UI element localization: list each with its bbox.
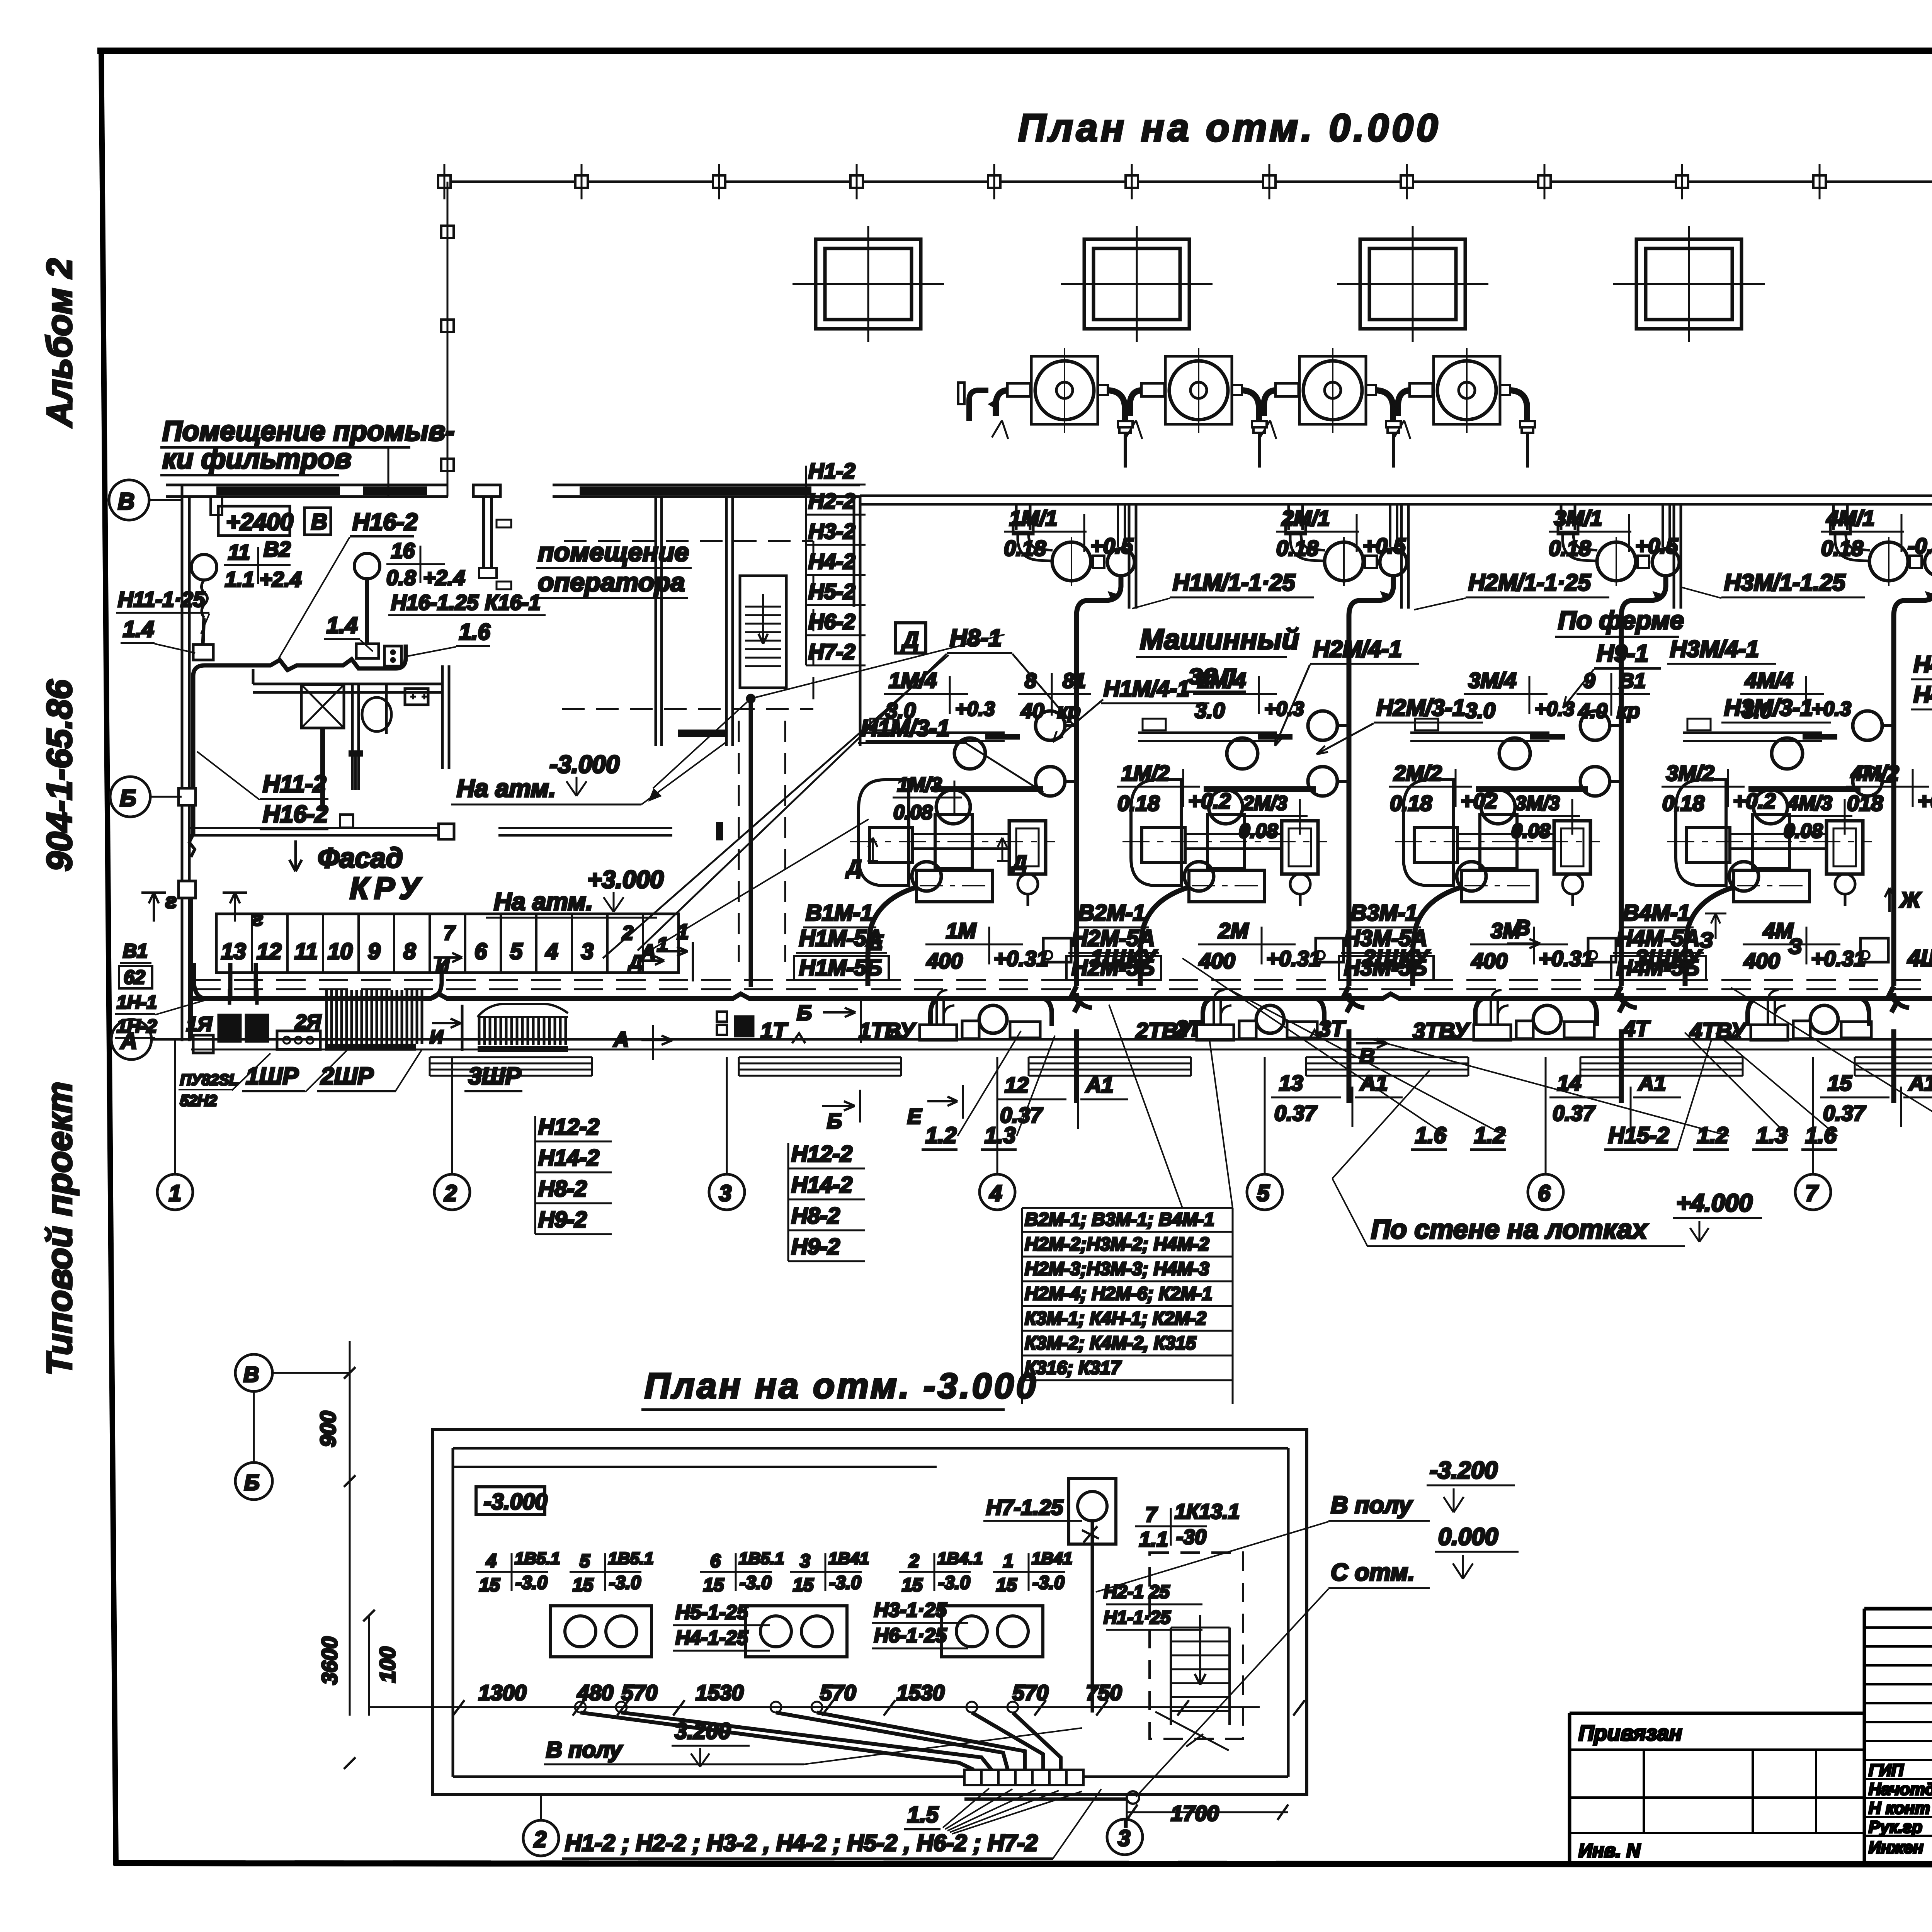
svg-text:помещение: помещение	[538, 537, 689, 567]
svg-text:Н конт: Н конт	[1869, 1799, 1930, 1818]
svg-text:2ТВУ: 2ТВУ	[1135, 1019, 1193, 1044]
svg-text:1В5.1: 1В5.1	[515, 1549, 560, 1568]
left colonnade column line down	[447, 182, 449, 497]
svg-text:12: 12	[1005, 1073, 1029, 1097]
svg-text:1.2: 1.2	[1697, 1123, 1728, 1148]
svg-text:4: 4	[545, 939, 558, 964]
svg-text:+0.31: +0.31	[1266, 946, 1321, 971]
svg-text:Н1-2 ; Н2-2 ; Н3-2 , Н4-2 ; Н5: Н1-2 ; Н2-2 ; Н3-2 , Н4-2 ; Н5-2 , Н6-2 …	[565, 1830, 1038, 1856]
svg-text:3М/3: 3М/3	[1515, 792, 1560, 815]
svg-text:Н1М/1-1·25: Н1М/1-1·25	[1173, 570, 1296, 595]
svg-text:Д: Д	[1011, 852, 1027, 874]
svg-text:Н4-2: Н4-2	[808, 549, 855, 573]
svg-text:Н8-2: Н8-2	[791, 1203, 840, 1228]
svg-text:+3.000: +3.000	[587, 866, 664, 893]
svg-text:81: 81	[1063, 669, 1086, 692]
break zigzags on А line	[889, 1030, 1741, 1039]
svg-text:Рук.гр: Рук.гр	[1869, 1818, 1922, 1837]
svg-text:2М/1: 2М/1	[1281, 506, 1330, 530]
svg-text:570: 570	[1012, 1680, 1048, 1705]
svg-text:Н9-1: Н9-1	[1597, 640, 1648, 667]
fraction 7|1К13.1	[1135, 1508, 1207, 1546]
border bottom	[114, 1863, 1932, 1865]
svg-text:Фасад: Фасад	[318, 843, 403, 874]
svg-text:К3М-2; К4М-2, К315: К3М-2; К4М-2, К315	[1025, 1333, 1197, 1354]
machine unit 1	[850, 504, 1134, 1103]
thin leaders from right datums into plan	[1096, 1522, 1328, 1592]
svg-text:3.0: 3.0	[1195, 698, 1225, 723]
fan feed pipe far left	[969, 390, 988, 421]
svg-text:В1: В1	[1619, 669, 1646, 692]
svg-text:кр: кр	[1057, 699, 1080, 723]
hanger circles below blocks	[575, 1702, 1018, 1713]
manifold row of ferrules	[964, 1770, 1083, 1785]
axis В circle	[109, 480, 149, 520]
svg-text:12: 12	[257, 939, 282, 964]
fan 1	[989, 348, 1133, 468]
svg-text:16: 16	[391, 539, 415, 563]
slanted cable runs to manifold	[580, 1713, 1061, 1770]
svg-text:3М/4: 3М/4	[1468, 668, 1517, 692]
svg-text:570: 570	[820, 1680, 856, 1705]
svg-text:Ж: Ж	[1899, 888, 1922, 912]
wall tick at left top	[211, 497, 222, 515]
bay wall stub 1	[1129, 504, 1136, 609]
skylight 2	[1061, 226, 1213, 342]
svg-text:1.3: 1.3	[985, 1123, 1016, 1148]
svg-text:Н3М/4-1: Н3М/4-1	[1670, 636, 1759, 662]
svg-text:Н11-1·25: Н11-1·25	[118, 587, 206, 611]
fraction 1М/4 3.0+0.3	[884, 668, 995, 723]
toilet stall	[351, 684, 354, 790]
4ТВУ	[1751, 990, 1871, 1040]
grid rows upper empty part	[1864, 1628, 1932, 1760]
svg-text:4М/3: 4М/3	[1787, 792, 1832, 815]
svg-text:8: 8	[403, 939, 416, 964]
svg-text:кр: кр	[1617, 699, 1640, 723]
svg-text:1.4: 1.4	[123, 617, 154, 642]
stack Н1-2..Н7-2	[806, 459, 866, 665]
svg-text:В1: В1	[123, 940, 148, 962]
svg-text:1.2: 1.2	[925, 1123, 957, 1148]
svg-text:904-1-65.86: 904-1-65.86	[40, 679, 79, 871]
svg-text:Н2М-4; Н2М-6; К2М-1: Н2М-4; Н2М-6; К2М-1	[1025, 1284, 1213, 1304]
svg-text:5: 5	[510, 939, 523, 964]
svg-text:На атм.: На атм.	[494, 888, 593, 915]
svg-text:400: 400	[1471, 949, 1507, 973]
svg-text:0.18: 0.18	[1549, 536, 1591, 560]
fraction 4М/1 0.18-0.5	[1821, 506, 1932, 560]
svg-text:Н6-1·25: Н6-1·25	[874, 1624, 947, 1647]
svg-text:Н3М/1-1.25: Н3М/1-1.25	[1724, 570, 1846, 595]
svg-text:0.18: 0.18	[1390, 791, 1432, 815]
fraction 2М/1 0.18+0.5	[1276, 506, 1406, 560]
svg-text:+0.5: +0.5	[1363, 534, 1406, 558]
svg-text:Н2М/3-1: Н2М/3-1	[1376, 695, 1465, 721]
dimension line with ticks	[440, 1706, 1260, 1708]
svg-text:В: В	[118, 488, 134, 514]
svg-text:+0.3: +0.3	[1535, 698, 1575, 720]
svg-text:0.18: 0.18	[1662, 791, 1705, 815]
axis circles 2 3 below lower plan	[523, 1820, 559, 1856]
svg-text:В1М-1: В1М-1	[806, 900, 873, 925]
svg-text:7: 7	[444, 922, 456, 944]
svg-text:3М/2: 3М/2	[1666, 761, 1714, 785]
svg-text:1.6: 1.6	[459, 619, 490, 645]
svg-text:0.37: 0.37	[1553, 1101, 1596, 1125]
svg-text:15: 15	[1828, 1071, 1852, 1095]
svg-text:+2400: +2400	[226, 509, 293, 536]
svg-text:Н12-2: Н12-2	[791, 1141, 852, 1167]
axis circles В Б left of lower plan	[235, 1354, 272, 1391]
svg-text:750: 750	[1086, 1680, 1122, 1705]
crossed duct box	[301, 685, 344, 728]
colonnade beam line	[442, 180, 1932, 183]
svg-text:-3.0: -3.0	[1032, 1573, 1065, 1593]
svg-text:В2: В2	[264, 537, 291, 561]
outer walls	[433, 1430, 1307, 1794]
svg-text:Н9-2: Н9-2	[538, 1207, 587, 1232]
г section marks	[141, 893, 166, 922]
svg-text:15: 15	[996, 1575, 1017, 1595]
svg-text:Инжен: Инжен	[1869, 1838, 1923, 1857]
svg-text:1К13.1: 1К13.1	[1175, 1500, 1240, 1523]
svg-text:4М/1: 4М/1	[1826, 506, 1875, 530]
svg-text:3.0: 3.0	[1465, 698, 1495, 723]
trench top line	[191, 1049, 1932, 1051]
svg-text:Н16-2: Н16-2	[352, 509, 418, 536]
svg-text:Альбом 2: Альбом 2	[40, 259, 79, 428]
svg-text:11: 11	[228, 540, 250, 564]
inner wall lines	[453, 1447, 1288, 1450]
svg-text:-3.000: -3.000	[549, 750, 619, 778]
svg-text:Машинный: Машинный	[1140, 623, 1299, 655]
svg-text:11: 11	[294, 939, 318, 964]
svg-text:14: 14	[1557, 1071, 1581, 1095]
svg-text:1Н-1: 1Н-1	[117, 992, 157, 1013]
svg-text:+0.31: +0.31	[1811, 946, 1866, 971]
svg-text:5: 5	[580, 1551, 590, 1571]
svg-text:Н3-1·25: Н3-1·25	[874, 1599, 947, 1621]
svg-text:Начотд: Начотд	[1869, 1780, 1932, 1799]
svg-text:2М/4: 2М/4	[1197, 668, 1246, 692]
svg-text:Н14-2: Н14-2	[791, 1172, 852, 1197]
1Т black box + label	[735, 1016, 753, 1036]
operator room left wall	[655, 497, 657, 746]
svg-text:018: 018	[1847, 791, 1883, 815]
svg-text:1.5: 1.5	[907, 1802, 939, 1827]
svg-text:6: 6	[474, 939, 487, 964]
svg-text:4ТВУ: 4ТВУ	[1689, 1019, 1747, 1044]
svg-text:Н5-1-25: Н5-1-25	[675, 1601, 748, 1624]
skylight 3	[1337, 226, 1488, 342]
svg-text:9: 9	[1583, 669, 1595, 692]
svg-text:3ТВУ: 3ТВУ	[1413, 1019, 1470, 1044]
skylight 1	[793, 226, 944, 342]
signature rows	[1864, 1779, 1932, 1836]
++ box	[405, 689, 428, 705]
bay wall stub 2	[1401, 504, 1408, 609]
corridor walls	[189, 827, 439, 829]
svg-text:-3.000: -3.000	[484, 1489, 547, 1514]
svg-text:1: 1	[169, 1181, 181, 1206]
boxed В	[304, 508, 331, 535]
bay wall stub 3	[1674, 504, 1681, 609]
svg-text:Н16-2: Н16-2	[263, 801, 328, 828]
svg-text:З: З	[1788, 934, 1802, 958]
svg-text:А1: А1	[1908, 1071, 1932, 1095]
svg-text:Н7-2: Н7-2	[808, 639, 855, 664]
svg-text:2М/3: 2М/3	[1242, 792, 1287, 815]
svg-text:3: 3	[581, 939, 594, 964]
Привязан annex	[1570, 1712, 1864, 1715]
svg-text:КРУ: КРУ	[350, 871, 425, 905]
svg-text:62: 62	[124, 966, 145, 988]
svg-text:Н5-2: Н5-2	[808, 579, 855, 604]
svg-text:4М/2: 4М/2	[1850, 761, 1899, 785]
svg-text:900: 900	[316, 1411, 340, 1447]
svg-text:-3.200: -3.200	[1430, 1457, 1498, 1484]
svg-text:0.18: 0.18	[1117, 791, 1160, 815]
annex inner right wall	[441, 665, 444, 769]
Д section marks mid-plan	[867, 838, 878, 861]
svg-text:Б: Б	[827, 1109, 842, 1133]
А axis line	[151, 1038, 1932, 1041]
svg-text:Е: Е	[869, 930, 884, 954]
svg-text:В: В	[311, 509, 327, 534]
svg-text:1: 1	[1003, 1551, 1014, 1571]
svg-text:6: 6	[710, 1551, 721, 1571]
svg-text:0.08: 0.08	[1511, 820, 1550, 842]
boxed +2400	[218, 506, 290, 536]
svg-text:13: 13	[1279, 1071, 1303, 1095]
svg-text:ПУ82SL: ПУ82SL	[180, 1071, 238, 1088]
svg-text:-30: -30	[1176, 1526, 1206, 1549]
svg-text:В полу: В полу	[1331, 1492, 1413, 1519]
svg-text:Б: Б	[120, 785, 136, 811]
svg-text:0.37: 0.37	[1823, 1101, 1866, 1125]
fraction 1М/3 0.08	[893, 774, 962, 824]
svg-text:0.000: 0.000	[1438, 1524, 1498, 1550]
axis Б circle	[110, 777, 150, 817]
svg-text:3600: 3600	[317, 1636, 342, 1685]
svg-text:ГИП: ГИП	[1869, 1761, 1904, 1780]
svg-text:1.1: 1.1	[225, 567, 254, 591]
main thick cable line (Б run)	[191, 994, 1932, 998]
svg-text:+02: +02	[1461, 789, 1497, 813]
svg-text:+2.4: +2.4	[260, 567, 302, 591]
svg-text:г: г	[165, 889, 177, 913]
machine unit 2	[1122, 504, 1407, 1103]
svg-text:3.200: 3.200	[675, 1719, 731, 1744]
svg-text:ки фильтров: ки фильтров	[162, 444, 351, 474]
svg-text:0.08: 0.08	[893, 801, 932, 824]
dashed tray pair below КРУ	[191, 979, 1932, 981]
svg-text:В2М-1: В2М-1	[1078, 900, 1145, 925]
svg-text:г: г	[252, 906, 263, 930]
svg-text:Н8-1: Н8-1	[950, 625, 1002, 651]
svg-text:+0.31: +0.31	[994, 946, 1049, 971]
Д boxed + Н8-1	[896, 623, 926, 653]
svg-text:А: А	[120, 1028, 137, 1054]
wall stub + black bar	[725, 497, 728, 746]
machine unit 4	[1667, 504, 1932, 1103]
svg-text:З: З	[1699, 928, 1713, 952]
outer top line of title block	[1864, 1607, 1932, 1611]
svg-text:15: 15	[703, 1575, 724, 1595]
svg-text:0.08: 0.08	[1239, 820, 1278, 842]
svg-text:3Т: 3Т	[1318, 1016, 1346, 1041]
svg-text:1М/3: 1М/3	[897, 774, 942, 796]
svg-text:2ШР: 2ШР	[320, 1063, 374, 1090]
svg-text:4ЩКУ: 4ЩКУ	[1907, 945, 1932, 971]
3ТВУ	[1474, 990, 1594, 1040]
machine hall left wall stub	[853, 496, 855, 607]
svg-text:По стене на лотках: По стене на лотках	[1371, 1214, 1648, 1244]
svg-text:4М/4: 4М/4	[1745, 668, 1793, 692]
machine hall top wall	[860, 495, 1932, 497]
svg-text:1ЩКУ: 1ЩКУ	[1090, 945, 1158, 971]
svg-text:И: И	[430, 1027, 444, 1048]
svg-text:1.4: 1.4	[327, 613, 358, 638]
ledge line	[453, 1466, 937, 1468]
cable list at axis 4	[1022, 1005, 1233, 1404]
svg-text:4: 4	[486, 1551, 497, 1571]
svg-text:400: 400	[1743, 949, 1780, 973]
svg-text:Н4М/4-1: Н4М/4-1	[1913, 651, 1932, 677]
cable shaft	[738, 721, 740, 962]
fraction 3М/1 0.18+0.5	[1549, 506, 1678, 560]
svg-text:2: 2	[444, 1181, 457, 1206]
svg-text:+0.2: +0.2	[1918, 789, 1932, 813]
svg-text:1В41: 1В41	[828, 1549, 869, 1568]
left annex outer left wall	[181, 485, 184, 1041]
КРУ cells	[216, 914, 679, 973]
svg-text:2ЩКУ: 2ЩКУ	[1362, 945, 1430, 971]
svg-text:+0.31: +0.31	[1539, 946, 1594, 971]
И mark	[432, 1019, 461, 1028]
operator room dashed boundary	[564, 540, 813, 542]
svg-text:1В41: 1В41	[1032, 1549, 1072, 1568]
svg-text:1ШР: 1ШР	[246, 1063, 299, 1090]
svg-text:100: 100	[375, 1647, 400, 1683]
cable drops from КРУ to band	[194, 963, 205, 998]
svg-text:Н9-2: Н9-2	[791, 1234, 840, 1259]
svg-text:0.18: 0.18	[1276, 536, 1319, 560]
svg-text:1Я: 1Я	[186, 1013, 213, 1036]
svg-text:Н1-2: Н1-2	[808, 459, 855, 483]
svg-text:400: 400	[1199, 949, 1235, 973]
svg-text:+0.3: +0.3	[955, 698, 995, 720]
svg-text:-3.0: -3.0	[609, 1573, 641, 1593]
svg-text:0.37: 0.37	[1274, 1101, 1318, 1125]
svg-text:3: 3	[800, 1551, 810, 1571]
svg-text:4Т: 4Т	[1622, 1016, 1651, 1041]
svg-text:В полу: В полу	[546, 1737, 623, 1762]
svg-text:С отм.: С отм.	[1331, 1559, 1415, 1586]
svg-text:0.8: 0.8	[386, 566, 416, 590]
fraction 1М 400+0.31	[925, 918, 1049, 973]
svg-text:40: 40	[1020, 699, 1044, 723]
svg-text:+0.3: +0.3	[1264, 698, 1304, 720]
signature texts	[1869, 1761, 1932, 1857]
svg-text:1В5.1: 1В5.1	[608, 1549, 653, 1568]
svg-text:+0.2: +0.2	[1188, 789, 1231, 813]
2ШР hatch block	[327, 990, 422, 1044]
svg-text:+0.2: +0.2	[1733, 789, 1776, 813]
svg-text:7: 7	[1145, 1503, 1158, 1526]
svg-text:1В5.1: 1В5.1	[739, 1549, 784, 1568]
boxed -3.000	[476, 1487, 545, 1515]
svg-text:1530: 1530	[896, 1680, 945, 1705]
svg-text:3: 3	[719, 1181, 731, 1206]
svg-text:На атм.: На атм.	[457, 774, 556, 802]
vertical dim line	[349, 1341, 351, 1716]
svg-text:К3М-1; К4Н-1; К2М-2: К3М-1; К4Н-1; К2М-2	[1025, 1308, 1206, 1329]
svg-text:Н3М/3-1: Н3М/3-1	[1724, 695, 1813, 721]
svg-text:1М/1: 1М/1	[1009, 506, 1058, 530]
lamp 1	[191, 554, 217, 580]
label В1М-1 / Н1М-5А / Н1М-5Б	[794, 900, 889, 980]
room cable run	[193, 645, 406, 835]
svg-text:2М/2: 2М/2	[1393, 761, 1442, 785]
svg-text:570: 570	[621, 1680, 657, 1705]
svg-text:15: 15	[902, 1575, 923, 1595]
2ТВУ	[1197, 990, 1317, 1040]
svg-text:52Н2: 52Н2	[180, 1092, 217, 1109]
svg-text:+0.5: +0.5	[1090, 534, 1133, 558]
svg-text:Н1-1·25: Н1-1·25	[1104, 1607, 1171, 1628]
svg-text:А1: А1	[1359, 1071, 1388, 1095]
svg-text:Е: Е	[907, 1104, 922, 1128]
svg-text:оператора: оператора	[538, 568, 685, 597]
svg-text:15: 15	[573, 1575, 594, 1595]
svg-text:1.6: 1.6	[1805, 1123, 1837, 1148]
operator room top wall	[553, 484, 860, 486]
svg-text:8: 8	[1025, 669, 1036, 692]
1ТВУ	[920, 990, 1040, 1040]
svg-text:Типовой проект: Типовой проект	[40, 1082, 79, 1376]
lamp 2	[354, 553, 380, 579]
svg-text:Н2М-2;Н3М-2; Н4М-2: Н2М-2;Н3М-2; Н4М-2	[1025, 1234, 1209, 1255]
svg-text:3: 3	[1118, 1826, 1130, 1851]
svg-text:400: 400	[926, 949, 963, 973]
svg-text:Н15-2: Н15-2	[1608, 1123, 1669, 1148]
svg-text:К316; К317: К316; К317	[1025, 1358, 1122, 1378]
svg-text:К16-1: К16-1	[485, 590, 541, 614]
svg-text:1.3: 1.3	[1756, 1123, 1787, 1148]
svg-text:Н12-2: Н12-2	[538, 1114, 599, 1139]
interior wall horizontal	[253, 669, 442, 692]
wall stub below crossed box	[320, 728, 325, 811]
svg-text:В3М-1: В3М-1	[1350, 900, 1418, 925]
svg-text:Н7-1.25: Н7-1.25	[986, 1495, 1063, 1519]
svg-text:Н16-1.25: Н16-1.25	[391, 590, 479, 614]
svg-text:4.0: 4.0	[1578, 699, 1607, 723]
fraction 1М/1 0.18+0.5	[1004, 506, 1133, 560]
svg-text:Привязан: Привязан	[1578, 1721, 1682, 1745]
svg-text:Н2-2: Н2-2	[808, 489, 855, 513]
svg-text:Н2М/1-1·25: Н2М/1-1·25	[1468, 570, 1591, 595]
svg-text:15: 15	[479, 1575, 500, 1595]
svg-text:Н2-1 25: Н2-1 25	[1104, 1582, 1170, 1602]
svg-text:Д: Д	[901, 628, 919, 653]
svg-text:+4.000: +4.000	[1676, 1189, 1753, 1217]
svg-text:6: 6	[1538, 1181, 1551, 1206]
stairwell dashed	[1150, 1553, 1243, 1739]
svg-text:5: 5	[1257, 1181, 1270, 1206]
svg-text:В: В	[243, 1362, 259, 1386]
